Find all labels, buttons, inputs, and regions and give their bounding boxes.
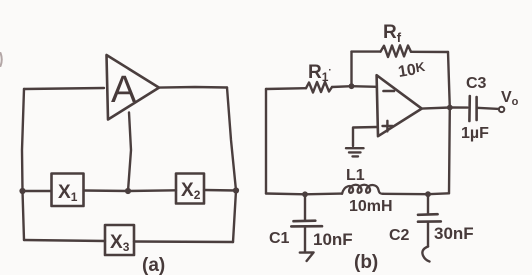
svg-text:R1·: R1· xyxy=(308,62,332,84)
svg-text:C2: C2 xyxy=(389,227,410,244)
svg-text:A: A xyxy=(111,69,137,111)
svg-text:1µF: 1µF xyxy=(461,125,489,142)
svg-text:(b): (b) xyxy=(354,252,378,273)
svg-text:L1: L1 xyxy=(346,167,365,184)
svg-text:30nF: 30nF xyxy=(434,224,474,243)
svg-text:C3: C3 xyxy=(466,75,487,92)
svg-text:C1: C1 xyxy=(269,230,290,247)
svg-text:10nF: 10nF xyxy=(313,230,353,249)
svg-text:10mH: 10mH xyxy=(349,198,393,215)
svg-text:(a): (a) xyxy=(142,255,165,275)
